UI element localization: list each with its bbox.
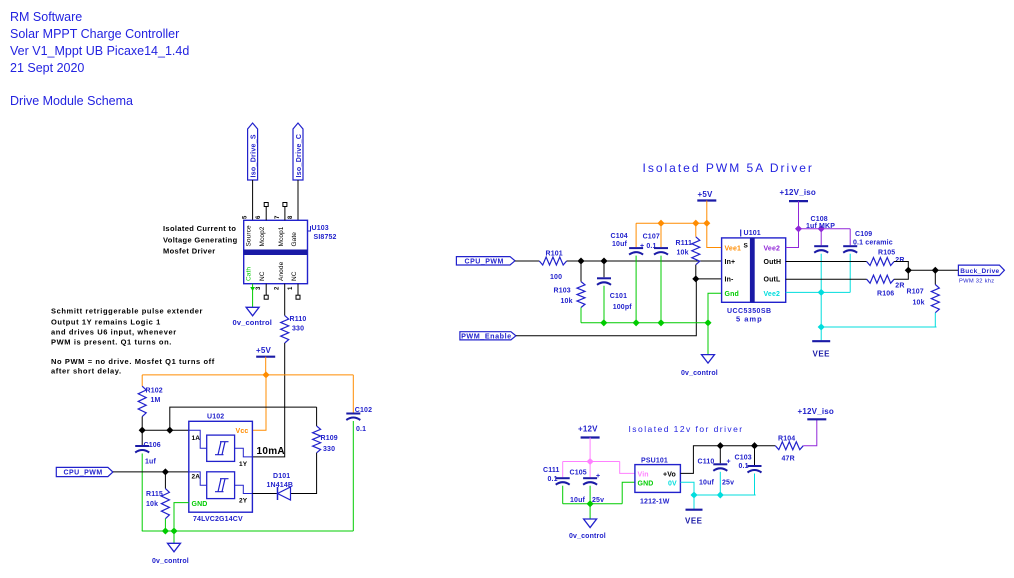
- svg-text:+12V_iso: +12V_iso: [798, 407, 835, 416]
- svg-text:0v_control: 0v_control: [152, 558, 189, 565]
- svg-text:74LVC2G14CV: 74LVC2G14CV: [193, 516, 243, 523]
- svg-text:Isolated 12v for driver: Isolated 12v for driver: [629, 424, 744, 434]
- svg-text:R104: R104: [778, 436, 795, 443]
- svg-text:Ver V1_Mppt UB Picaxe14_1.4d: Ver V1_Mppt UB Picaxe14_1.4d: [10, 44, 189, 58]
- svg-text:SI8752: SI8752: [314, 234, 337, 241]
- svg-text:NC: NC: [291, 271, 298, 281]
- svg-text:In-: In-: [725, 277, 735, 284]
- svg-text:+5V: +5V: [256, 346, 272, 355]
- svg-text:VEE: VEE: [813, 350, 831, 359]
- svg-text:Gate: Gate: [291, 232, 298, 247]
- svg-text:U102: U102: [207, 414, 224, 421]
- svg-text:NC: NC: [259, 271, 266, 281]
- svg-text:GND: GND: [638, 480, 654, 487]
- svg-text:R101: R101: [546, 250, 563, 257]
- svg-text:1uf MKP: 1uf MKP: [806, 223, 835, 230]
- svg-text:1uf: 1uf: [145, 459, 156, 466]
- svg-text:0v_control: 0v_control: [681, 370, 718, 377]
- svg-text:R105: R105: [878, 250, 895, 257]
- svg-text:Voltage Generating: Voltage Generating: [163, 235, 238, 244]
- svg-text:2Y: 2Y: [239, 498, 248, 505]
- svg-text:0v_control: 0v_control: [569, 533, 606, 540]
- svg-text:C111: C111: [543, 467, 560, 474]
- svg-text:10k: 10k: [677, 250, 689, 257]
- svg-text:Iso_Drive_C: Iso_Drive_C: [296, 134, 303, 178]
- svg-text:Vee1: Vee1: [725, 245, 742, 252]
- svg-text:PWM is present. Q1 turns on.: PWM is present. Q1 turns on.: [51, 338, 172, 347]
- svg-text:Isolated Current to: Isolated Current to: [163, 224, 236, 233]
- svg-text:1M: 1M: [151, 397, 161, 404]
- svg-text:2R: 2R: [895, 282, 904, 289]
- svg-text:Cath: Cath: [246, 267, 253, 281]
- svg-text:D101: D101: [273, 473, 290, 480]
- svg-text:100: 100: [550, 274, 562, 281]
- svg-text:R107: R107: [907, 288, 924, 295]
- svg-text:R103: R103: [554, 287, 571, 294]
- svg-text:Vee2: Vee2: [764, 245, 781, 252]
- svg-text:Schmitt retriggerable pulse ex: Schmitt retriggerable pulse extender: [51, 307, 203, 316]
- svg-text:0.1: 0.1: [356, 426, 366, 433]
- svg-text:Iso_Drive_S: Iso_Drive_S: [250, 134, 257, 177]
- svg-text:2A: 2A: [192, 474, 201, 481]
- svg-text:10uf: 10uf: [612, 241, 628, 248]
- svg-text:In+: In+: [725, 259, 736, 266]
- svg-text:Mcop1: Mcop1: [278, 226, 285, 246]
- svg-text:C107: C107: [643, 234, 660, 241]
- svg-text:+5V: +5V: [698, 190, 714, 199]
- svg-text:10k: 10k: [146, 501, 158, 508]
- svg-text:100pf: 100pf: [613, 304, 633, 311]
- svg-text:GND: GND: [192, 501, 208, 508]
- svg-text:330: 330: [323, 446, 335, 453]
- svg-text:OutH: OutH: [764, 259, 782, 266]
- svg-text:Mosfet Driver: Mosfet Driver: [163, 247, 215, 256]
- svg-text:C110: C110: [698, 459, 715, 466]
- svg-text:Vcc: Vcc: [236, 428, 249, 435]
- svg-text:R110: R110: [290, 316, 307, 323]
- svg-text:10k: 10k: [561, 298, 573, 305]
- svg-text:Anode: Anode: [278, 261, 285, 281]
- svg-text:1Y: 1Y: [239, 461, 248, 468]
- svg-text:R115: R115: [146, 491, 163, 498]
- svg-text:OutL: OutL: [764, 277, 782, 284]
- svg-text:0.1: 0.1: [739, 463, 749, 470]
- svg-text:+Vo: +Vo: [663, 471, 676, 478]
- svg-text:Isolated PWM 5A Driver: Isolated PWM 5A Driver: [643, 161, 814, 175]
- svg-text:Gnd: Gnd: [725, 291, 739, 298]
- svg-text:10uf: 10uf: [570, 497, 586, 504]
- svg-text:and drives U6 input, whenever: and drives U6 input, whenever: [51, 328, 177, 337]
- svg-text:0.1 ceramic: 0.1 ceramic: [853, 240, 893, 247]
- svg-text:CPU_PWM: CPU_PWM: [63, 470, 102, 477]
- svg-text:10mA: 10mA: [257, 446, 285, 457]
- svg-text:S: S: [744, 243, 749, 250]
- svg-text:0V: 0V: [668, 480, 677, 487]
- svg-text:U101: U101: [744, 230, 761, 237]
- svg-text:PWM_Enable: PWM_Enable: [461, 331, 512, 340]
- svg-text:Vee2: Vee2: [764, 291, 781, 298]
- svg-text:21 Sept 2020: 21 Sept 2020: [10, 61, 84, 75]
- svg-text:1212-1W: 1212-1W: [640, 499, 670, 506]
- svg-text:47R: 47R: [782, 456, 795, 463]
- svg-text:VEE: VEE: [685, 517, 703, 526]
- svg-text:R111: R111: [676, 240, 693, 247]
- svg-text:C108: C108: [811, 216, 828, 223]
- svg-text:1A: 1A: [192, 435, 201, 442]
- svg-text:5 amp: 5 amp: [736, 315, 763, 324]
- svg-text:0v_control: 0v_control: [233, 318, 272, 327]
- svg-text:330: 330: [292, 326, 304, 333]
- svg-text:Source: Source: [246, 225, 253, 246]
- svg-text:+12V: +12V: [578, 425, 598, 434]
- svg-text:Buck_Drive: Buck_Drive: [960, 268, 999, 275]
- svg-text:C105: C105: [570, 469, 587, 476]
- svg-text:10k: 10k: [913, 299, 925, 306]
- svg-text:C109: C109: [855, 231, 872, 238]
- svg-text:10uf: 10uf: [699, 479, 715, 486]
- svg-text:R109: R109: [321, 435, 338, 442]
- svg-text:Vin: Vin: [638, 471, 649, 478]
- svg-text:R106: R106: [877, 290, 894, 297]
- svg-text:Solar MPPT Charge Controller: Solar MPPT Charge Controller: [10, 27, 179, 41]
- svg-text:C101: C101: [610, 293, 627, 300]
- svg-text:25v: 25v: [722, 479, 734, 486]
- svg-text:2R: 2R: [895, 257, 904, 264]
- svg-text:C103: C103: [735, 455, 752, 462]
- svg-text:after short delay.: after short delay.: [51, 367, 122, 376]
- svg-text:R102: R102: [146, 388, 163, 395]
- svg-text:PSU101: PSU101: [641, 458, 668, 465]
- svg-text:Mcop2: Mcop2: [259, 226, 266, 246]
- svg-text:+12V_iso: +12V_iso: [780, 188, 817, 197]
- svg-text:CPU_PWM: CPU_PWM: [465, 258, 504, 265]
- svg-text:25v: 25v: [592, 497, 604, 504]
- svg-text:U103: U103: [312, 225, 329, 232]
- svg-text:PWM 32 khz: PWM 32 khz: [959, 279, 994, 285]
- svg-text:No PWM = no drive. Mosfet Q1 t: No PWM = no drive. Mosfet Q1 turns off: [51, 357, 215, 366]
- svg-text:C104: C104: [611, 233, 628, 240]
- svg-text:Output 1Y remains Logic 1: Output 1Y remains Logic 1: [51, 318, 161, 327]
- svg-text:RM Software: RM Software: [10, 10, 82, 24]
- svg-text:Drive Module Schema: Drive Module Schema: [10, 94, 133, 108]
